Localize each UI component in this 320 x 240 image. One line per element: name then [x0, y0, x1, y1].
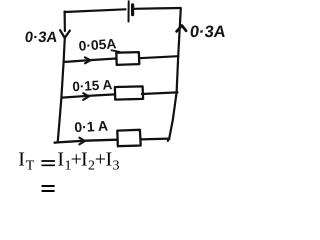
arrow current down on left wire — [60, 30, 70, 37]
svg-text:0·15 A: 0·15 A — [72, 77, 113, 94]
svg-text:0·3A: 0·3A — [189, 22, 227, 41]
wire branch 1 right — [139, 56, 178, 58]
battery B1 long plate — [128, 1, 130, 21]
wire branch 2 right — [142, 92, 178, 94]
battery B1 short plate — [131, 5, 134, 15]
resistor R1 — [116, 52, 139, 65]
resistor R2 — [115, 86, 143, 99]
svg-text:0·3A: 0·3A — [24, 29, 58, 46]
wire top-left segment — [65, 9, 126, 12]
svg-text:ITI1+I2+I3: ITI1+I2+I3 — [18, 148, 119, 173]
wire right vertical — [168, 8, 181, 141]
wire branch 1 left — [64, 59, 116, 63]
formula line 2: equals sign — [42, 186, 55, 191]
wire branch 3 right — [141, 137, 170, 140]
resistor R3 — [117, 130, 140, 146]
flourish from label A to R1 — [112, 50, 120, 52]
wire left vertical — [58, 12, 65, 143]
svg-text:0·05A: 0·05A — [78, 36, 117, 54]
wire top-right segment — [134, 7, 180, 10]
svg-text:0·1 A: 0·1 A — [74, 118, 109, 136]
wire branch 2 left — [62, 94, 115, 97]
equals sign line 1 — [41, 161, 55, 165]
wire branch 3 bottom-left with corner overshoot — [55, 140, 118, 143]
arrow current up on right wire — [177, 26, 187, 32]
arrow I1 — [85, 57, 90, 63]
arrow I3 — [79, 138, 85, 145]
arrow I2 — [83, 93, 89, 100]
